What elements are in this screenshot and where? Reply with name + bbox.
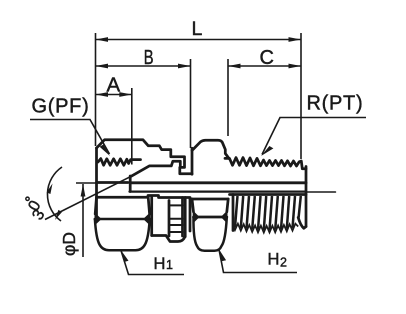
nut internal G thread zigzag xyxy=(98,159,141,166)
hex H1 right corner triangle xyxy=(144,214,150,225)
hatch line 11 xyxy=(293,196,296,228)
nut bore line xyxy=(97,181,129,184)
collar ring edge vertical xyxy=(184,198,187,237)
hatch line 10 xyxy=(287,196,289,229)
nipple cone nose (30 deg seat) xyxy=(130,161,180,177)
H2 region top edge xyxy=(190,198,228,201)
hatch line 9 xyxy=(281,196,284,229)
leader G arrowhead xyxy=(100,145,110,157)
extension line B right xyxy=(190,59,192,148)
hex H1 mid edge xyxy=(95,218,150,221)
thread end chamfer xyxy=(298,218,306,229)
hatch line 3 xyxy=(247,196,250,229)
svg-text:2: 2 xyxy=(280,256,287,270)
leader G(PF) xyxy=(30,120,110,155)
hex H1 right upper edge xyxy=(148,197,149,214)
lower view top edge (hex H1) xyxy=(97,196,149,199)
hatch line 7 xyxy=(270,196,273,230)
svg-text:A: A xyxy=(107,74,121,97)
leader H1 arrowhead xyxy=(121,250,129,263)
meridian line (center of part) xyxy=(130,191,307,193)
extension line C left xyxy=(227,59,229,136)
hex H2 left boundary vertical xyxy=(189,200,192,232)
dimension C arrows xyxy=(228,64,301,69)
centerline extension right xyxy=(306,191,336,193)
neck bottom xyxy=(152,236,185,242)
hex H2 right corner triangle xyxy=(222,212,228,223)
dimension B arrows xyxy=(96,64,191,69)
hex H2 mid edge xyxy=(194,216,227,219)
phiD dimension line xyxy=(82,184,84,257)
dimension A xyxy=(96,94,132,96)
30deg angle line xyxy=(45,177,130,220)
male thread top edge (lower view) xyxy=(230,193,307,196)
svg-text:H: H xyxy=(268,251,280,269)
hatch line 8 xyxy=(275,196,278,230)
svg-text:C: C xyxy=(260,47,274,69)
hatch line 1 xyxy=(235,196,238,227)
svg-text:1: 1 xyxy=(166,258,173,272)
leader H2 arrowhead xyxy=(219,249,227,262)
extension line L/C right xyxy=(300,33,302,159)
hex H2 right upper edge xyxy=(227,199,228,212)
leader H2 xyxy=(219,250,297,273)
male R thread zigzag (section) xyxy=(225,158,306,169)
hex H1 front face xyxy=(95,219,150,250)
phiD arrowhead xyxy=(81,184,86,197)
dimension C xyxy=(228,65,301,67)
nut left edge xyxy=(95,148,98,219)
hatch line 4 xyxy=(252,196,255,229)
nipple nose end face xyxy=(129,176,132,192)
svg-text:G(PF): G(PF) xyxy=(32,96,90,118)
nut skirt (neck) left edge xyxy=(150,198,153,236)
collar top edge xyxy=(159,196,191,199)
dimension L arrows xyxy=(96,37,302,42)
hex H1 left upper edge xyxy=(95,197,96,214)
male thread root teeth (bottom zigzag) xyxy=(233,224,298,233)
svg-text:H: H xyxy=(154,255,166,273)
collar groove bottom edge xyxy=(169,218,183,220)
extension line A right xyxy=(131,88,133,165)
dimension A arrows xyxy=(96,92,132,97)
male thread left boundary xyxy=(232,195,235,231)
hex H1 left corner triangle xyxy=(95,214,101,225)
leader R arrowhead xyxy=(261,146,273,156)
hatch line 12 xyxy=(299,196,301,218)
collar groove top edge xyxy=(169,204,183,206)
hatch line 5 xyxy=(258,196,261,230)
dimension B xyxy=(96,65,191,67)
extension line left common (L/B/A) xyxy=(95,33,97,146)
hatch line 2 xyxy=(241,196,243,228)
dimension L xyxy=(96,39,302,41)
svg-text:R(PT): R(PT) xyxy=(307,93,364,115)
collar lower slot bottom edge xyxy=(169,231,183,233)
right end face xyxy=(305,167,308,227)
svg-text:L: L xyxy=(192,18,203,40)
svg-text:B: B xyxy=(144,47,154,69)
male thread hatch lines (lower view) xyxy=(235,196,301,230)
leader H1 xyxy=(121,251,184,275)
hex H2 left corner triangle xyxy=(193,212,199,223)
leader R(PT) xyxy=(262,118,366,155)
neck top edge xyxy=(148,194,159,197)
30deg arc arrowheads xyxy=(47,184,53,195)
hex H2 front face xyxy=(193,217,226,251)
collar lower slot top edge xyxy=(169,224,183,226)
collar groove right vertical xyxy=(181,198,184,237)
collar groove left vertical xyxy=(168,201,171,237)
body left face next to nut lip xyxy=(191,148,194,174)
svg-text:φD: φD xyxy=(59,232,79,256)
fitting: swivel nut outer profile (section, upper half) xyxy=(97,140,193,174)
phiD extension line xyxy=(76,182,98,184)
hex H2 left upper edge xyxy=(192,199,194,212)
hatch line 6 xyxy=(264,196,266,230)
bore line xyxy=(130,181,306,184)
body hex section top (upper half) xyxy=(192,140,229,158)
degree mark of 30 xyxy=(26,197,29,200)
30deg arc xyxy=(47,167,62,221)
